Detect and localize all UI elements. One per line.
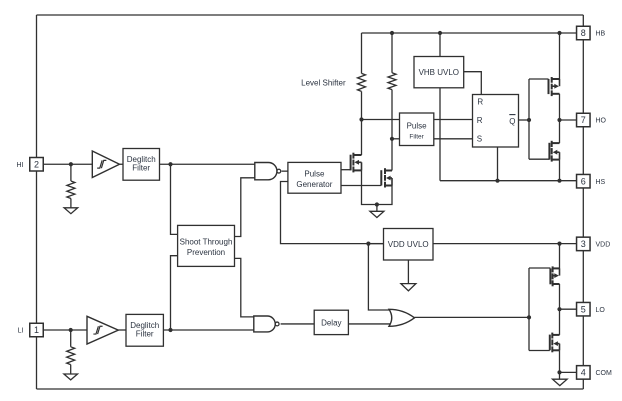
wire junction to ground — [376, 205, 378, 212]
IC boundary border bottom — [37, 379, 584, 389]
transistor M2 (level shifter right NMOS) — [381, 168, 392, 187]
wire deglitch HI output to NAND gate — [160, 163, 255, 165]
node HI input junction — [69, 162, 73, 166]
wire deglitch LI output to NAND2 — [163, 329, 253, 331]
wire pulse filter to latch S input — [434, 138, 473, 140]
block Pulse Generator — [288, 162, 341, 193]
svg-text:4: 4 — [581, 368, 586, 378]
wire VDD junction down to OR gate — [368, 244, 390, 310]
node HB rail junction R3 — [390, 31, 394, 35]
transistor M4 (HO low-side NMOS) — [549, 141, 559, 162]
pin 4 COM — [577, 366, 612, 380]
ground (COM) — [553, 379, 568, 385]
svg-text:Filter: Filter — [409, 134, 424, 141]
wire gate bus to M5 gate — [529, 267, 550, 269]
wire HB rail to resistor R2 — [361, 33, 363, 73]
block Deglitch Filter (HI) — [123, 149, 160, 181]
wire NAND2 output to delay — [281, 323, 315, 325]
wire COM node to pin 4 — [560, 371, 577, 373]
wire VHB UVLO to latch R top input — [464, 72, 482, 95]
wire VDD UVLO to pin 3 — [433, 243, 577, 245]
wire HO node to M4 drain — [559, 120, 561, 143]
wire junction to resistor R1 — [70, 164, 72, 181]
IC boundary border top — [37, 15, 584, 26]
wire OR gate output to LO driver — [415, 316, 530, 318]
wire latch Q output to driver — [519, 119, 530, 121]
wire M3 source to HO node — [559, 94, 561, 120]
node HB rail junction VHB — [438, 31, 442, 35]
svg-text:LI: LI — [18, 328, 24, 335]
wire LO node to pin 5 — [560, 308, 577, 310]
IC boundary border right — [582, 40, 584, 366]
wire VDD line left — [368, 243, 383, 245]
pin 3 VDD — [577, 237, 611, 251]
wire HS line — [440, 180, 577, 182]
wire M4 source to HS line — [559, 160, 561, 181]
svg-text:Q: Q — [509, 117, 515, 126]
svg-text:2: 2 — [34, 159, 39, 169]
svg-text:VDD: VDD — [596, 242, 611, 249]
wire LO node to M6 drain — [559, 309, 561, 335]
wire shoot-through box down to NAND2 input — [235, 258, 254, 317]
wire VDD UVLO to ground — [407, 260, 409, 284]
wire VHB UVLO down to HS line — [439, 88, 441, 181]
wire gate bus to M6 gate — [529, 350, 550, 352]
svg-text:1: 1 — [34, 325, 39, 335]
schmitt buffer U1 (HI) — [92, 151, 119, 178]
block Pulse Filter — [400, 113, 434, 146]
svg-text:Delay: Delay — [321, 318, 341, 327]
svg-text:R: R — [477, 98, 483, 107]
svg-text:8: 8 — [581, 28, 586, 38]
wire HI pin2 to resistor junction — [43, 163, 92, 165]
wire M5 source to LO node — [559, 284, 561, 309]
nand gate G1 (HI) — [255, 163, 281, 180]
wire gate M2 from pulse generator — [341, 185, 381, 187]
wire R2 to node R — [361, 91, 363, 119]
pin 5 LO — [577, 302, 606, 316]
wire latch bottom to HS line — [497, 147, 499, 181]
node HS driver junction — [557, 179, 561, 183]
IC boundary border left — [36, 15, 38, 389]
wire M1 M2 sources to ground — [362, 170, 393, 204]
wire HB rail to resistor R3 — [391, 33, 393, 73]
svg-text:HO: HO — [596, 118, 607, 125]
node HB rail junction driver — [557, 31, 561, 35]
svg-text:VHB UVLO: VHB UVLO — [419, 68, 459, 77]
svg-text:6: 6 — [581, 176, 586, 186]
resistor R1 (HI pulldown) — [67, 181, 75, 208]
resistor R3 (level shifter right) — [388, 73, 396, 90]
transistor M1 (level shifter left NMOS) — [351, 153, 362, 173]
node VDD OR-gate junction — [366, 242, 370, 246]
block VDD UVLO — [384, 229, 434, 261]
wire M2 drain to node S — [391, 139, 393, 171]
resistor R4 (LI pulldown) — [67, 347, 75, 374]
node HI deglitch junction — [168, 162, 172, 166]
svg-text:COM: COM — [596, 370, 613, 377]
wire gate bus to M4 gate — [529, 158, 549, 160]
node S (right level shift) — [390, 137, 394, 141]
wire schmitt to deglitch filter LI — [118, 329, 126, 331]
wire junction to resistor R4 — [70, 330, 72, 347]
wire LI pin1 to schmitt — [43, 329, 87, 331]
wire NAND1 output to pulse generator — [282, 170, 288, 172]
svg-text:3: 3 — [581, 239, 586, 249]
block Deglitch Filter (LI) — [126, 314, 163, 346]
wire M6 source to COM node — [559, 350, 561, 372]
node HS latch junction — [495, 179, 499, 183]
transistor M5 (LO high-side PMOS) — [550, 266, 559, 286]
wire HB rail to VHB UVLO — [439, 33, 441, 57]
svg-text:S: S — [477, 135, 482, 144]
node HO driver input — [527, 118, 531, 122]
wire LO driver gate bus — [528, 268, 530, 351]
svg-text:HS: HS — [596, 179, 606, 186]
pin 1 LI — [18, 323, 44, 337]
wire gate bus to M3 gate — [529, 78, 549, 80]
node LI deglitch junction — [168, 328, 172, 332]
block Delay — [314, 310, 348, 334]
svg-text:R: R — [477, 116, 483, 125]
svg-text:Pulse: Pulse — [407, 122, 428, 131]
wire COM node to ground — [559, 372, 561, 379]
ground (level shifter) — [370, 211, 384, 217]
wire HB rail — [362, 32, 577, 34]
transistor M3 (HO high-side PMOS) — [549, 77, 560, 96]
wire node S to pulse filter — [392, 138, 400, 140]
node COM junction — [557, 370, 561, 374]
wire M1 drain to node R — [361, 120, 363, 156]
wire delay to OR gate — [348, 323, 392, 325]
wire HB to M3 drain — [559, 33, 561, 79]
svg-text:Generator: Generator — [296, 180, 332, 189]
wire VDD to M5 drain — [559, 244, 561, 269]
node LO driver input — [527, 315, 531, 319]
ground (HI pulldown) — [64, 208, 78, 214]
node R (left level shift) — [359, 117, 363, 121]
pin 8 HB — [577, 26, 606, 40]
svg-text:5: 5 — [581, 304, 586, 314]
svg-text:LO: LO — [596, 307, 606, 314]
svg-text:7: 7 — [581, 115, 586, 125]
wire gate M1 from pulse generator — [341, 169, 351, 171]
resistor R2 (level shifter left) — [358, 73, 366, 91]
transistor M6 (LO low-side NMOS) — [550, 333, 560, 353]
wire HO node to pin 7 — [560, 119, 577, 121]
or gate G3 — [389, 309, 415, 326]
wire pulse generator to VDD UVLO rail — [281, 182, 384, 244]
wire node R to pulse filter — [362, 119, 400, 121]
pin 2 HI — [17, 158, 44, 172]
svg-text:Filter: Filter — [132, 163, 150, 172]
node LI input junction — [69, 328, 73, 332]
node VDD driver junction — [557, 242, 561, 246]
svg-text:Level Shifter: Level Shifter — [301, 78, 346, 87]
svg-text:HB: HB — [596, 31, 606, 38]
wire HO driver gate bus — [528, 79, 530, 159]
node LO output — [557, 307, 561, 311]
nand gate G2 (LI) — [254, 316, 279, 332]
wire schmitt to deglitch filter — [120, 163, 124, 165]
wire shoot-through box to LI junction — [171, 256, 178, 330]
latch U2 (RS latch) — [473, 95, 519, 148]
schmitt buffer U3 (LI) — [87, 316, 118, 344]
node level shifter source junction — [375, 202, 379, 206]
svg-text:Prevention: Prevention — [187, 248, 225, 257]
block VHB UVLO — [414, 57, 464, 88]
svg-text:VDD UVLO: VDD UVLO — [388, 240, 429, 249]
pin 6 HS — [577, 174, 606, 188]
label Level Shifter — [301, 78, 346, 87]
wire R3 to node S — [391, 90, 393, 139]
svg-text:Shoot Through: Shoot Through — [180, 237, 233, 246]
block Shoot Through Prevention — [178, 225, 235, 266]
node HO output — [557, 118, 561, 122]
svg-text:HI: HI — [17, 162, 24, 169]
wire shoot-through box up to NAND1 input — [235, 178, 255, 237]
wire pulse filter to latch R input — [434, 119, 473, 121]
svg-text:Pulse: Pulse — [304, 169, 325, 178]
svg-text:Filter: Filter — [136, 329, 154, 338]
ground (LI pulldown) — [64, 374, 78, 380]
wire HI junction down to shoot-through box — [171, 164, 178, 234]
ground (VDD UVLO) — [401, 284, 416, 291]
pin 7 HO — [577, 113, 607, 127]
